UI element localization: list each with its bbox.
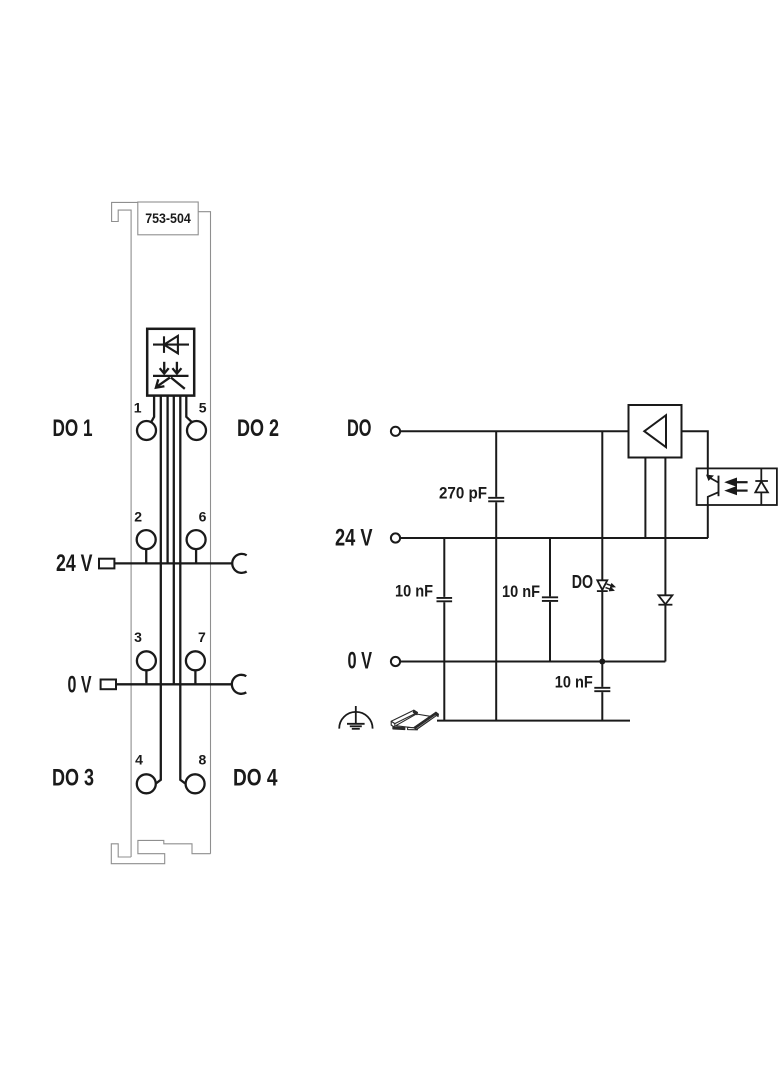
optocoupler transistor base bar <box>718 476 720 497</box>
terminal 4 <box>137 774 156 793</box>
svg-text:DO 3: DO 3 <box>52 765 94 792</box>
amplifier U2 triangle <box>644 415 666 447</box>
svg-text:5: 5 <box>199 399 207 415</box>
stem terminal 6 <box>195 549 197 564</box>
amplifier U2 box <box>629 405 682 458</box>
wire D1 to 0V <box>664 605 666 662</box>
0V rail line <box>116 683 232 685</box>
wire from U1 to terminal 1 <box>151 396 154 423</box>
LED DO triangle <box>597 580 607 590</box>
stem terminal 7 <box>194 670 196 684</box>
svg-text:1: 1 <box>134 399 142 415</box>
optocoupler photodiode triangle <box>755 481 768 492</box>
svg-text:24 V: 24 V <box>56 550 93 577</box>
optocoupler photodiode cathode bar <box>755 480 768 482</box>
wire from U1 to 0V rail <box>173 396 175 685</box>
svg-text:4: 4 <box>135 752 143 768</box>
capacitor C1 10nF leads <box>443 538 445 721</box>
terminal 3 <box>137 651 156 670</box>
svg-text:DO 1: DO 1 <box>53 415 93 442</box>
junction dot 0V <box>599 659 605 665</box>
svg-text:2: 2 <box>134 508 142 524</box>
node 0V terminal circle <box>391 657 400 666</box>
wire DO line <box>400 430 628 432</box>
0V rail square connector <box>101 680 116 690</box>
LED DO cathode bar <box>597 590 608 592</box>
optocoupler transistor emitter diagonal <box>708 492 719 505</box>
svg-text:24 V: 24 V <box>335 524 373 551</box>
capacitor C4 10nF plates <box>594 688 610 691</box>
wire from U1 to terminal 8 <box>180 396 185 784</box>
svg-text:DO: DO <box>572 572 593 592</box>
optocoupler transistor upper diagonal with arrow <box>707 476 718 483</box>
capacitor C3 10nF plates <box>542 597 558 601</box>
svg-text:7: 7 <box>198 629 206 645</box>
DIN rail icon <box>391 710 438 730</box>
wire from U1 to terminal 4 <box>156 396 161 784</box>
wire amp output <box>682 431 708 468</box>
node DO terminal circle <box>391 427 400 436</box>
24V rail line <box>114 562 232 564</box>
optocoupler U3 box <box>697 468 777 505</box>
optocoupler light arrow a <box>727 479 747 485</box>
ground symbol <box>339 706 372 729</box>
svg-text:6: 6 <box>199 508 207 524</box>
svg-text:753-504: 753-504 <box>145 210 191 226</box>
stem terminal 3 <box>145 670 147 684</box>
wire 0V line <box>400 661 665 663</box>
svg-text:10 nF: 10 nF <box>395 581 433 600</box>
wire amp lead to diode D1 <box>664 458 666 596</box>
diode D1 cathode bar <box>658 604 672 606</box>
optocoupler light arrow b <box>727 488 747 494</box>
terminal 1 <box>137 421 156 440</box>
svg-text:3: 3 <box>134 629 142 645</box>
terminal 5 <box>187 421 206 440</box>
terminal 8 <box>186 774 205 793</box>
svg-text:DO 2: DO 2 <box>237 415 279 442</box>
module outline: top-left tab and left edge <box>112 202 138 857</box>
wire from U1 to 24V rail <box>166 396 168 564</box>
optocoupler photodiode lead <box>760 468 762 505</box>
capacitor C2 270pF leads <box>495 431 497 720</box>
svg-text:8: 8 <box>199 752 207 768</box>
svg-text:0 V: 0 V <box>348 648 373 675</box>
module outline: right edge <box>198 212 210 854</box>
capacitor C2 270pF plates <box>488 498 504 502</box>
node 24V terminal circle <box>391 533 400 542</box>
svg-text:10 nF: 10 nF <box>502 582 540 601</box>
terminal 2 <box>137 530 156 549</box>
stem terminal 2 <box>145 549 147 564</box>
svg-text:DO: DO <box>347 415 372 442</box>
24V rail square connector <box>99 559 114 569</box>
wire DO branch through LED <box>601 431 603 720</box>
wire amp lead to 24V <box>644 458 646 539</box>
LED DO light arrow b <box>606 588 614 591</box>
optocoupler transistor collector wire <box>707 468 709 476</box>
wire from U1 to terminal 5 <box>186 396 192 423</box>
label box 753-504 <box>138 202 198 235</box>
svg-text:270 pF: 270 pF <box>439 483 487 502</box>
capacitor C1 10nF plates <box>437 598 453 601</box>
wire optocoupler emitter to 24V <box>707 505 709 538</box>
svg-text:10 nF: 10 nF <box>555 673 593 692</box>
diode symbol in U1 <box>153 336 189 353</box>
24V rail open contact arc <box>232 554 246 573</box>
svg-text:0 V: 0 V <box>68 671 92 698</box>
terminal 6 <box>187 530 206 549</box>
module outline: bottom DIN-rail foot <box>111 840 210 863</box>
capacitor C3 10nF leads <box>549 538 551 662</box>
terminal 7 <box>186 651 205 670</box>
wire functional earth line <box>437 720 630 722</box>
wire 24V line <box>400 537 708 539</box>
0V rail open contact arc <box>232 675 246 694</box>
surge arrester symbol in U1 <box>153 362 189 389</box>
suppressor block U1 <box>147 329 194 396</box>
svg-text:DO 4: DO 4 <box>233 765 278 792</box>
diode D1 triangle <box>658 595 672 604</box>
LED DO light arrow a <box>607 584 615 587</box>
